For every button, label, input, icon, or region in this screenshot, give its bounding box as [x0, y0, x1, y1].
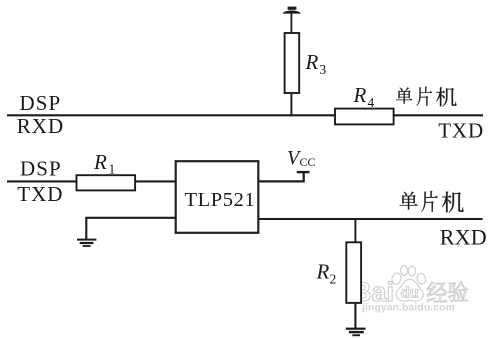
watermark CJK 验 [448, 281, 468, 302]
resistor R1 [77, 175, 136, 190]
wire DSP TXD to R1 [7, 180, 77, 182]
watermark Baidu paw icon [391, 265, 427, 301]
resistor R4 [335, 109, 394, 125]
wire U1 upper-right pin to VCC [258, 172, 303, 181]
label TLP521 [185, 189, 256, 211]
wire R2 to ground [354, 302, 356, 329]
watermark CJK 经 [427, 282, 447, 302]
label RXD (bottom right) [440, 225, 487, 250]
resistor R2 [346, 242, 361, 303]
svg-text:TXD: TXD [17, 182, 63, 206]
svg-text:2: 2 [330, 271, 337, 286]
svg-text:RXD: RXD [17, 114, 64, 138]
svg-text:DSP: DSP [20, 91, 62, 115]
wire R1 to U1 [135, 180, 176, 182]
svg-text:R: R [316, 260, 330, 284]
resistor R3 [285, 33, 300, 93]
label VCC [287, 147, 316, 169]
wire U1 lower-left pin to ground [86, 218, 176, 240]
svg-text:4: 4 [368, 95, 375, 110]
watermark Baidu logo text "Bai" [352, 277, 394, 307]
svg-text:TLP521: TLP521 [185, 189, 256, 211]
svg-text:jingyan.baidu.com: jingyan.baidu.com [361, 303, 455, 314]
wire R4 to MCU TXD [394, 114, 483, 116]
wire DSP RXD line (left segment) [7, 114, 335, 116]
label DSP (bottom left) [20, 157, 62, 181]
label R3 [305, 50, 327, 77]
svg-text:TXD: TXD [438, 119, 484, 143]
svg-text:R: R [305, 50, 319, 74]
wire U1 lower-right pin to MCU RXD line [258, 218, 482, 220]
svg-text:CC: CC [300, 155, 316, 169]
power symbol (top supply arrow above R3) [283, 7, 301, 14]
label 单片机 (bottom right) [400, 191, 464, 213]
ground (below U1 input) [77, 239, 96, 247]
label 单片机 (top right) [396, 87, 457, 107]
label R4 [353, 83, 375, 110]
wire node B down to R2 [354, 219, 356, 243]
svg-text:R: R [353, 83, 367, 107]
svg-text:du: du [401, 285, 419, 302]
svg-text:3: 3 [320, 62, 327, 77]
svg-text:RXD: RXD [440, 225, 487, 250]
VCC terminal bar [297, 171, 310, 173]
svg-text:1: 1 [109, 162, 116, 177]
label R1 [93, 150, 115, 177]
watermark "du" text [401, 285, 419, 302]
label TXD (top right) [438, 119, 484, 143]
label R2 [316, 260, 337, 287]
label TXD (bottom left) [17, 182, 63, 206]
ground (below R2) [346, 328, 366, 337]
label DSP (top left) [20, 91, 62, 115]
watermark url jingyan.baidu.com [361, 303, 455, 314]
op-amp U1 optocoupler TLP521 box [176, 161, 259, 233]
svg-text:R: R [93, 150, 107, 174]
wire R3 to node A [290, 93, 292, 117]
svg-text:DSP: DSP [20, 157, 62, 181]
label RXD (top left) [17, 114, 64, 138]
wire power to R3 [290, 12, 292, 34]
